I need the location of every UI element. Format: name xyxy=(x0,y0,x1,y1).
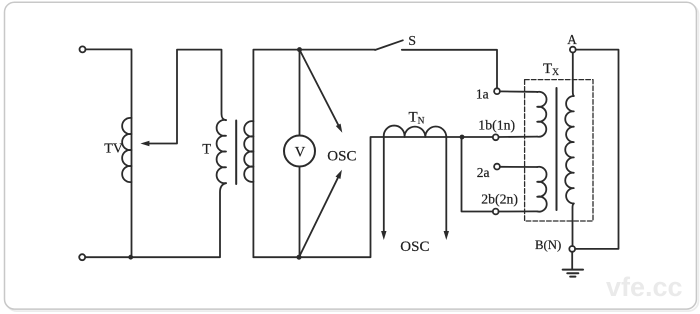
wire voltmeter to bottom junction xyxy=(299,167,301,258)
svg-text:2a: 2a xyxy=(477,165,490,180)
wire switch to 1a drop xyxy=(402,50,497,88)
svg-text:2b(2n): 2b(2n) xyxy=(481,192,518,208)
ground xyxy=(571,252,573,269)
wire 2b to TX xyxy=(499,210,538,212)
svg-text:B(N): B(N) xyxy=(535,238,561,252)
transformer TX primary winding 1 xyxy=(537,92,546,137)
svg-text:vfe.cc: vfe.cc xyxy=(606,272,683,302)
arrow top to OSC xyxy=(300,50,339,125)
arrow OSC pickup right xyxy=(445,137,447,231)
svg-text:1a: 1a xyxy=(476,87,489,102)
transformer TX primary winding 2 xyxy=(537,167,547,212)
wire input-top to TV xyxy=(86,49,132,257)
svg-text:V: V xyxy=(295,144,306,160)
wire bottom rail left segment xyxy=(85,183,226,257)
transformer TX secondary winding xyxy=(565,96,574,204)
node junction top V xyxy=(297,47,302,52)
svg-text:T: T xyxy=(202,142,211,158)
terminal A xyxy=(570,47,576,53)
terminal input-top xyxy=(80,46,86,52)
autotransformer TV winding xyxy=(122,118,131,182)
wire TN baseline to 1b xyxy=(384,136,493,138)
wire TX secondary bottom to B xyxy=(573,204,574,247)
svg-text:TV: TV xyxy=(104,142,123,157)
transformer T primary winding xyxy=(217,120,226,183)
switch S xyxy=(375,40,403,50)
transformer T secondary winding xyxy=(244,121,253,182)
terminal input-bottom xyxy=(79,254,85,260)
node junction bottom V xyxy=(297,255,302,260)
enclosure TX dashed box xyxy=(525,80,593,221)
terminal B(N) xyxy=(569,246,575,252)
voltmeter V xyxy=(284,136,315,167)
terminal 2a xyxy=(494,164,500,170)
wiper arrow of TV xyxy=(149,50,226,144)
terminal 2b(2n) xyxy=(493,209,499,215)
wire 1a to TX xyxy=(500,90,537,93)
svg-text:S: S xyxy=(408,34,416,49)
svg-text:A: A xyxy=(567,32,577,47)
arrow OSC pickup left xyxy=(383,137,385,231)
node junction TV-bottom xyxy=(128,255,133,260)
wire top junction to voltmeter xyxy=(299,50,301,136)
wire T secondary bottom to bottom rail xyxy=(253,137,383,257)
wire 1b to TX xyxy=(499,136,538,138)
transformer TX core xyxy=(556,88,558,210)
wire A to TX secondary top xyxy=(573,53,574,97)
transformer T core xyxy=(235,121,237,185)
inductor TN winding xyxy=(384,126,447,137)
svg-text:OSC: OSC xyxy=(400,239,429,255)
wire 2a to TX xyxy=(500,166,537,168)
terminal 1b(1n) xyxy=(493,134,499,140)
wire 2b branch xyxy=(462,137,493,212)
wire A to right rail xyxy=(575,50,618,249)
svg-text:OSC: OSC xyxy=(327,149,356,165)
terminal 1a xyxy=(494,88,500,94)
node junction 2b branch xyxy=(460,135,465,140)
wire T secondary top to top rail xyxy=(253,50,375,258)
svg-text:1b(1n): 1b(1n) xyxy=(478,118,515,134)
arrow bottom to OSC xyxy=(299,178,338,257)
